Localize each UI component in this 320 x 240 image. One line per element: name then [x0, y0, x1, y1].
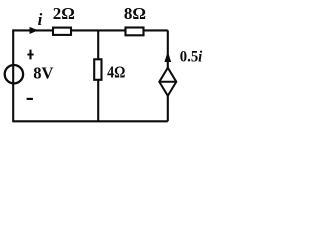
resistor 8ohm — [126, 28, 144, 36]
voltage source V1 circle — [5, 65, 23, 83]
svg-text:4Ω: 4Ω — [107, 64, 125, 82]
svg-text:2Ω: 2Ω — [53, 4, 75, 23]
resistor 2ohm — [53, 28, 71, 35]
dependent source U1 diamond — [159, 68, 176, 96]
wire bottom — [13, 120, 168, 122]
svg-text:0.5i: 0.5i — [180, 48, 203, 66]
dependent source chord — [159, 81, 176, 83]
wire middle branch — [97, 30, 99, 121]
svg-text:8Ω: 8Ω — [124, 4, 146, 23]
wire top — [13, 29, 168, 31]
wire left — [12, 29, 14, 122]
current arrow i — [30, 27, 39, 34]
label plus — [27, 50, 33, 60]
dependent current source arrow 0.5i — [164, 52, 171, 62]
wire right — [167, 30, 169, 121]
label minus — [27, 98, 33, 100]
svg-text:8V: 8V — [33, 63, 53, 82]
resistor 4ohm — [94, 59, 101, 80]
svg-text:i: i — [38, 10, 43, 29]
